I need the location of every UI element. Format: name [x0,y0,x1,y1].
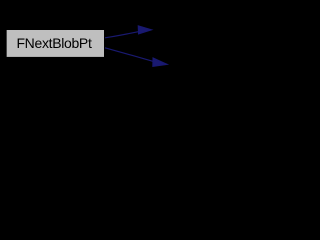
node FNextBlobPt [6,29,105,57]
edge to lower callee [105,48,167,67]
svg-text:FNextBlobPt: FNextBlobPt [16,35,91,51]
edge to upper callee [105,26,152,38]
